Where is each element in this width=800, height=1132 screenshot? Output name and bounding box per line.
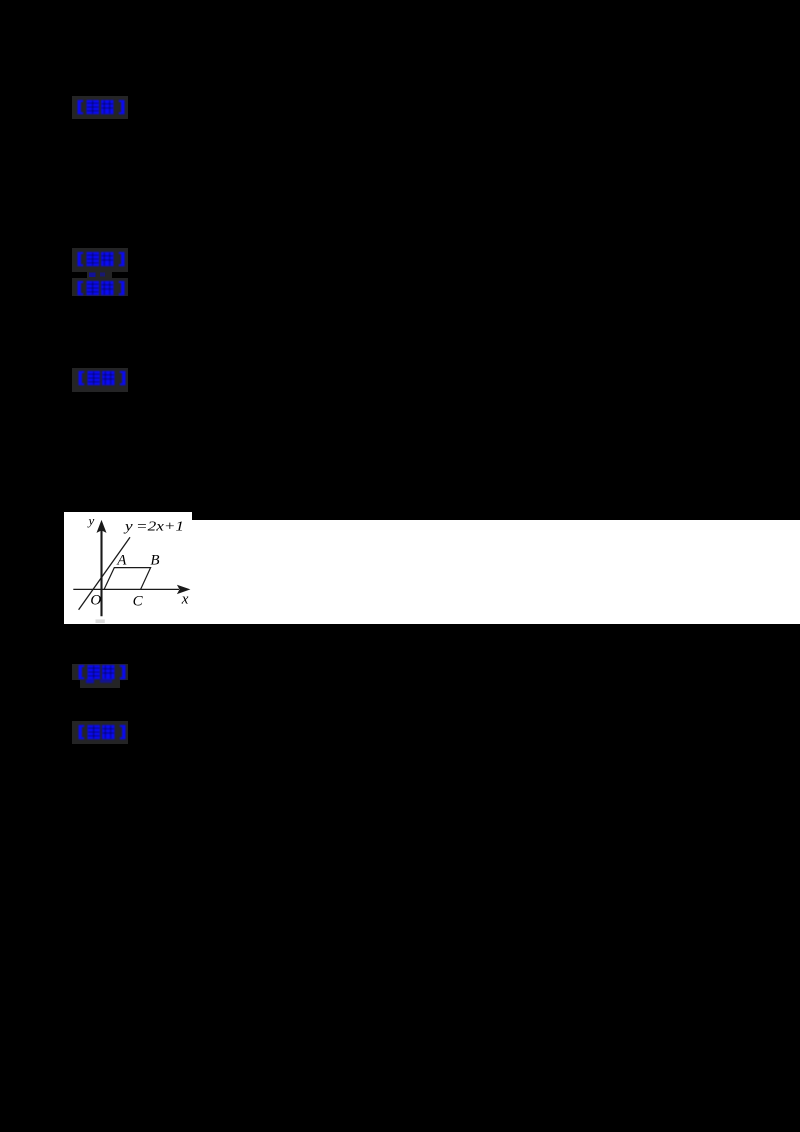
svg-text:A: A xyxy=(116,553,127,569)
svg-text:C: C xyxy=(133,593,144,609)
svg-text:O: O xyxy=(90,593,101,609)
svg-text:y: y xyxy=(87,513,95,528)
svg-text:x: x xyxy=(181,591,189,607)
svg-text:B: B xyxy=(150,552,159,568)
svg-text:y =2x+1: y =2x+1 xyxy=(122,518,184,533)
